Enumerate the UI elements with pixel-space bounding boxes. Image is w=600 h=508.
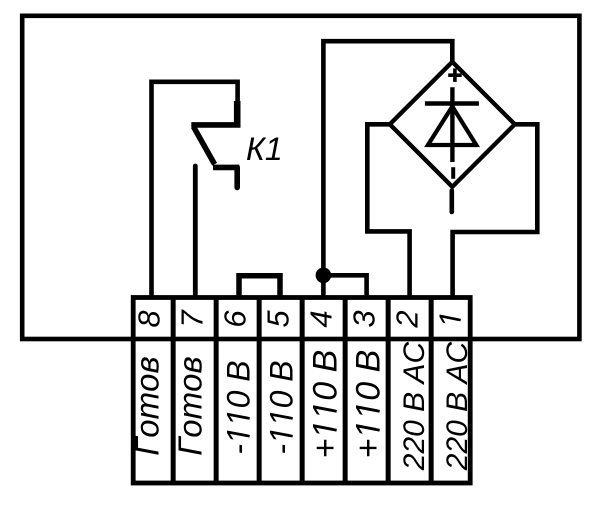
terminal 8 label Готов (129, 356, 166, 455)
wire junction to terminal 4 (321, 275, 326, 297)
terminal block divider 7/6 (214, 298, 219, 484)
junction dot node (316, 268, 332, 284)
terminal number 3 (347, 310, 382, 327)
svg-text:3: 3 (347, 310, 382, 327)
minus label of bridge rotated dash (451, 167, 455, 179)
wire terminal 8 up and over to relay contact (152, 82, 238, 297)
wire bridge plus output: top vertex up, left, down to junction (323, 41, 452, 276)
svg-text:Готов: Готов (129, 356, 166, 455)
device outline rectangle (22, 16, 579, 339)
terminal 4 label +110 В (307, 350, 345, 459)
terminal block outer rectangle (133, 298, 470, 484)
svg-text:7: 7 (175, 309, 210, 328)
svg-text:8: 8 (132, 310, 167, 328)
relay contact K1 right pin rounded end (234, 167, 240, 187)
svg-text:6: 6 (218, 310, 253, 328)
terminal block divider 4/3 (343, 298, 348, 484)
svg-text:2: 2 (390, 310, 425, 328)
svg-text:220 В АС: 220 В АС (398, 341, 431, 471)
terminal block divider 3/2 (386, 298, 391, 484)
terminal block divider 6/5 (257, 298, 262, 484)
bridge rectifier diamond (390, 62, 515, 187)
terminal 6 label -110 В (221, 360, 257, 454)
terminal number 2 (390, 310, 425, 328)
diode axis line inside bridge (450, 87, 454, 162)
terminal 3 label +110 В (350, 350, 388, 459)
terminal 5 label -110 В (264, 360, 300, 454)
svg-text:4: 4 (304, 310, 339, 327)
svg-text:-110 В: -110 В (264, 360, 300, 454)
diode cathode bar (425, 101, 479, 105)
diode triangle (428, 107, 476, 146)
terminal number 1 (433, 310, 468, 328)
svg-text:1: 1 (433, 310, 468, 327)
terminal block divider 8/7 (171, 298, 176, 484)
terminal 2 label 220 В АС (398, 341, 431, 471)
relay contact K1 left pin and wire to terminal 7 (193, 166, 198, 297)
terminal number 7 (175, 309, 210, 328)
wire bridge left AC vertex to terminal 2 (367, 124, 409, 297)
svg-text:Готов: Готов (172, 356, 209, 455)
terminal 1 label 220 В АС (441, 341, 474, 471)
terminal number 5 (261, 310, 296, 328)
svg-text:+110 В: +110 В (307, 350, 345, 459)
wire junction to terminal 3 (323, 275, 366, 297)
wire bridge right AC vertex to terminal 1 (453, 124, 538, 297)
svg-text:+110 В: +110 В (350, 350, 388, 459)
svg-text:220 В АС: 220 В АС (441, 341, 474, 471)
terminal number 4 (304, 310, 339, 327)
stub wire below bridge bottom vertex (449, 191, 454, 213)
terminal 7 label Готов (172, 356, 209, 455)
plus label of bridge (448, 68, 462, 82)
svg-text:5: 5 (261, 310, 296, 328)
terminal number 8 (132, 310, 167, 328)
svg-text:К1: К1 (246, 131, 283, 167)
relay contact K1 fixed terminal thick vertical (234, 101, 241, 127)
relay contact K1 upper horizontal bar (191, 122, 240, 128)
terminal block divider 5/4 (300, 298, 305, 484)
terminal block divider 2/1 (429, 298, 434, 484)
relay contact K1 moving arm diagonal (194, 127, 215, 165)
jumper wire between terminals 6 and 5 (239, 276, 280, 297)
terminal number 6 (218, 310, 253, 328)
relay contact K1 lower horizontal bar (213, 165, 239, 171)
svg-text:-110 В: -110 В (221, 360, 257, 454)
